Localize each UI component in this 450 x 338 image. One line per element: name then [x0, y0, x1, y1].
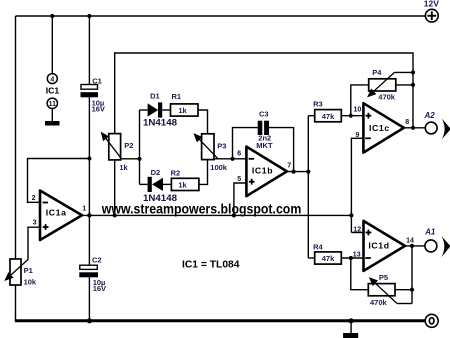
wire: R3 left lead — [308, 115, 314, 117]
potentiometer P5 — [368, 273, 397, 307]
wire: C2 bottom to 0V rail — [88, 277, 90, 321]
svg-text:470k: 470k — [378, 92, 396, 101]
svg-text:1k: 1k — [178, 106, 187, 115]
wire: IC1 pin4 supply drop — [51, 16, 53, 74]
resistor R1 — [171, 92, 199, 116]
svg-text:R4: R4 — [313, 243, 323, 252]
wire: IC1c pin9 down to reference bus — [351, 138, 363, 232]
terminal: 0V — [425, 314, 438, 327]
node: R3/R4 vertical joins IC1b output — [306, 170, 310, 174]
wire: P2 bottom terminal — [114, 160, 116, 216]
wire: IC1a output long reference bus — [81, 214, 351, 216]
potentiometer P1 — [7, 259, 37, 287]
svg-text:R1: R1 — [172, 92, 182, 101]
potentiometer P2 — [103, 134, 134, 172]
svg-text:P5: P5 — [379, 273, 388, 282]
svg-text:1: 1 — [82, 205, 86, 212]
node: top rail junction at pin4 drop — [50, 14, 54, 18]
svg-text:P3: P3 — [217, 141, 226, 150]
svg-text:IC1a: IC1a — [46, 208, 67, 218]
potentiometer P3 — [196, 134, 228, 172]
wire: R3/R4 feed vertical — [307, 116, 309, 258]
IC1 power pin 11 — [47, 98, 57, 121]
capacitor C2 — [79, 256, 106, 294]
capacitor C3 — [256, 110, 273, 150]
svg-text:1k: 1k — [119, 163, 128, 172]
node: C3 joins IC1b output — [292, 170, 296, 174]
wire: C1 bottom to C2 top (reference rail) — [88, 97, 90, 265]
node: pin5 taps reference bus — [232, 213, 236, 217]
wire: IC1c output to A2 — [405, 127, 425, 129]
potentiometer P4 — [369, 68, 396, 102]
wire: IC1b output — [287, 171, 308, 173]
wire: C3 right branch down to IC1b output — [269, 128, 294, 172]
svg-text:D2: D2 — [151, 168, 161, 177]
svg-text:3: 3 — [33, 219, 37, 226]
node: C3 branch taps pin6 wire — [230, 157, 234, 161]
wire: R2 right to P3 bottom — [199, 160, 208, 185]
svg-text:P1: P1 — [24, 266, 33, 275]
wire: P4 left terminal branch — [351, 85, 369, 116]
svg-text:7: 7 — [287, 162, 291, 169]
diode D2 1N4148 — [143, 168, 177, 204]
wire: IC1d feedback vertical — [411, 246, 413, 304]
wire: 0V bottom rail — [15, 319, 425, 322]
wire: IC1a pin3 to P1 wiper — [28, 227, 40, 259]
svg-text:47k: 47k — [322, 112, 335, 121]
wire: left supply rail upper (to P1 top) — [15, 16, 17, 259]
wire: D1 anode lead — [140, 109, 148, 111]
svg-text:16V: 16V — [92, 104, 105, 113]
svg-text:1k: 1k — [178, 181, 187, 190]
node: top rail junction at C1 — [87, 14, 91, 18]
wire: P5 left terminal branch — [351, 258, 369, 290]
svg-text:10k: 10k — [24, 278, 37, 287]
node A: P2 wiper junction — [137, 157, 141, 161]
node: P5 right terminal on feedback net — [410, 288, 414, 292]
svg-text:IC1 = TL084: IC1 = TL084 — [182, 259, 240, 270]
node: IC1c output junction — [411, 126, 415, 130]
svg-text:IC1d: IC1d — [368, 241, 389, 251]
svg-text:1N4148: 1N4148 — [143, 117, 177, 128]
node: reference bus end junction — [349, 213, 353, 217]
svg-text:C1: C1 — [92, 76, 102, 85]
resistor R2 — [171, 169, 199, 191]
svg-text:11: 11 — [49, 101, 57, 108]
svg-text:D1: D1 — [150, 91, 160, 100]
svg-text:R3: R3 — [313, 100, 323, 109]
wire: P3 wiper to IC1b pin6 — [214, 158, 246, 160]
wire: D1 cathode to R1 — [162, 109, 170, 111]
svg-text:470k: 470k — [370, 298, 388, 307]
wire: P4 right terminal — [396, 84, 413, 86]
terminal: output A2 — [424, 111, 450, 139]
svg-text:www.streampowers.blogspot.com: www.streampowers.blogspot.com — [101, 201, 301, 216]
wire: IC1a pin2 feedback to reference rail — [28, 159, 90, 203]
svg-text:MKT: MKT — [256, 141, 273, 150]
ground: IC1 pin 11 ground bar — [45, 121, 60, 126]
svg-text:16V: 16V — [93, 284, 106, 293]
node: P2 bottom taps output bus — [113, 213, 117, 217]
svg-text:C3: C3 — [259, 110, 269, 119]
resistor R4 — [313, 243, 341, 265]
wire: C3 left branch — [233, 128, 258, 159]
terminal: +12V — [424, 0, 439, 22]
svg-text:47k: 47k — [322, 254, 335, 263]
svg-text:10: 10 — [354, 107, 362, 114]
node: P4 wiper on IC1c net — [411, 70, 415, 74]
wire: D2 cathode lead — [140, 183, 148, 185]
svg-text:IC1: IC1 — [46, 85, 60, 95]
node: IC1a output junction — [87, 213, 91, 217]
svg-text:12V: 12V — [424, 0, 439, 8]
wire: R4 right to IC1d pin13 — [341, 257, 363, 259]
ground: bottom ground bar — [343, 333, 358, 338]
wire: R4 left lead — [308, 257, 314, 259]
op-amp IC1d — [353, 221, 414, 271]
svg-text:5: 5 — [237, 176, 241, 183]
op-amp IC1a — [32, 191, 87, 241]
svg-text:6: 6 — [237, 151, 241, 158]
wire: +12V top rail — [16, 15, 426, 17]
node: feedback taps reference rail — [87, 156, 91, 160]
wire: P2 top terminal up and across to IC1c output node — [115, 53, 413, 134]
svg-text:R2: R2 — [171, 169, 181, 178]
node: P5 branch taps pin13 — [349, 256, 353, 260]
wire: node A to P2 wiper tail — [122, 158, 140, 160]
capacitor C1 — [81, 76, 105, 113]
node: reference rail crosses output bus — [87, 213, 91, 217]
svg-text:P2: P2 — [124, 141, 133, 150]
svg-text:2: 2 — [32, 195, 36, 202]
svg-text:4: 4 — [50, 76, 54, 83]
node: ground tap on 0V rail — [349, 318, 354, 323]
wire: C1 drop from top rail — [88, 16, 90, 85]
diode D1 1N4148 — [143, 91, 177, 128]
wire: ground stub — [350, 321, 352, 333]
wire: node A vertical (D1/D2 left ends) — [139, 110, 141, 184]
svg-text:13: 13 — [353, 252, 361, 259]
svg-text:P4: P4 — [372, 68, 382, 77]
svg-text:IC1b: IC1b — [252, 165, 273, 175]
svg-text:100k: 100k — [210, 163, 228, 172]
svg-text:A2: A2 — [424, 111, 436, 120]
node: P4 branch taps pin10 — [349, 114, 353, 118]
wire: P5 right terminal — [395, 289, 412, 291]
svg-text:C2: C2 — [92, 256, 102, 265]
wire: R1 right to P3 top — [198, 110, 208, 134]
wire: IC1d output to A1 — [405, 245, 425, 247]
wire: R3 right to IC1c pin10 — [341, 115, 363, 117]
wire: P4 wiper tail — [395, 71, 414, 73]
node: IC1d output junction — [410, 244, 414, 248]
IC1 power pin 4 — [47, 74, 57, 84]
resistor R3 — [313, 100, 341, 122]
op-amp IC1c — [354, 103, 410, 152]
svg-text:9: 9 — [356, 132, 360, 139]
svg-text:12: 12 — [353, 226, 361, 233]
wire: P5 wiper tail — [397, 303, 412, 305]
node: C2 to 0V rail junction — [87, 318, 92, 323]
wire: IC1b pin5 down to reference bus — [234, 183, 247, 215]
svg-text:IC1c: IC1c — [369, 123, 390, 133]
wire: D2 anode to R2 — [163, 183, 171, 185]
svg-text:A1: A1 — [424, 228, 436, 237]
wire: left supply rail lower (P1 bottom to 0V rail) — [15, 285, 17, 321]
op-amp IC1b — [237, 147, 291, 197]
svg-text:14: 14 — [406, 238, 414, 245]
svg-text:8: 8 — [405, 119, 409, 126]
terminal: output A1 — [424, 228, 450, 258]
wire: IC1d pin12 stub — [351, 232, 363, 234]
node: P4 right terminal on IC1c net — [411, 83, 415, 87]
